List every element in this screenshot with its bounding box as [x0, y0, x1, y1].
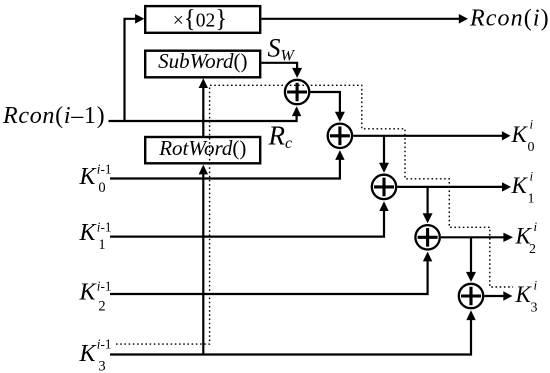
dotted bypass path from K3(i-1) through RotWord/SubWord to K3i	[116, 85, 513, 344]
XOR gate X5 plus	[461, 287, 481, 306]
wire XOR X4 output to K2i	[441, 236, 504, 238]
svg-text:K: K	[79, 280, 98, 306]
svg-text:0: 0	[528, 140, 535, 155]
XOR gate X3 plus	[374, 178, 394, 197]
XOR gate X1 circle	[285, 80, 309, 104]
svg-text:3: 3	[98, 359, 105, 373]
wire XOR X3 output to K1i	[397, 186, 502, 188]
wire Rcon(i-1) horizontal into XOR X1	[109, 108, 297, 121]
arrowhead up into X4 from K2(i-1)	[423, 252, 432, 262]
XOR gate X3 circle	[372, 175, 396, 199]
box RotWord U3	[145, 137, 260, 163]
svg-text:i-1: i-1	[97, 161, 112, 176]
svg-text:i: i	[530, 117, 534, 132]
arrowhead K2i right	[503, 233, 513, 242]
arrowhead up into X1 from Rcon line	[292, 106, 301, 116]
arrowhead K1i right	[502, 182, 511, 191]
XOR gate X4 plus	[418, 228, 438, 247]
arrowhead down into X3	[379, 163, 389, 173]
wire branch up to x{02} box	[125, 19, 137, 121]
XOR gate X2 circle	[328, 124, 352, 148]
svg-text:i: i	[530, 168, 534, 183]
wire K1(i-1) input into XOR X3 bottom	[110, 209, 384, 237]
wire branch K1i down into XOR X4 top	[427, 187, 429, 217]
arrowhead up into X2 from K0(i-1)	[335, 150, 344, 160]
XOR gate X2 plus	[330, 127, 350, 146]
svg-text:K: K	[511, 173, 529, 198]
svg-text:×{02}: ×{02}	[173, 6, 228, 33]
svg-text:2: 2	[98, 298, 105, 314]
svg-text:Rcon(i–1): Rcon(i–1)	[2, 103, 105, 129]
XOR gate X1 plus	[287, 83, 307, 102]
wire K0(i-1) input into XOR X2 bottom	[110, 157, 340, 179]
arrowhead up into RotWord	[199, 165, 208, 175]
svg-text:i-1: i-1	[97, 337, 112, 352]
XOR gate X4 circle	[415, 225, 439, 249]
svg-text:i: i	[534, 219, 538, 234]
svg-text:K: K	[79, 341, 98, 367]
svg-text:i-1: i-1	[97, 220, 112, 235]
svg-text:2: 2	[529, 242, 536, 257]
arrowhead up into SubWord	[199, 78, 208, 88]
arrowhead up into X3 from K1(i-1)	[379, 201, 388, 211]
wire XOR X1 output into XOR X2 top	[310, 92, 340, 115]
arrowhead into x{02}	[135, 14, 144, 24]
svg-text:K: K	[79, 164, 98, 190]
box SubWord U2	[145, 51, 260, 78]
svg-text:Rcon(i): Rcon(i)	[469, 6, 550, 32]
arrowhead Rcon(i)	[459, 14, 468, 24]
svg-text:i-1: i-1	[97, 279, 112, 294]
arrowhead down into X5	[466, 272, 476, 282]
wire SubWord output S_W into XOR X1 top	[262, 63, 298, 71]
svg-text:i: i	[534, 278, 538, 293]
wire XOR X5 output to K3i	[484, 295, 504, 297]
arrowhead down into X4	[423, 213, 433, 223]
svg-text:3: 3	[531, 301, 538, 316]
wire RotWord output up into SubWord	[202, 85, 204, 137]
arrowhead K0i right	[502, 131, 511, 140]
arrowhead X1->X2 down	[335, 112, 345, 122]
arrowhead K3i right	[503, 291, 512, 300]
wire K3(i-1) up into RotWord	[202, 172, 204, 355]
wire XOR X2 output to K0i	[353, 135, 502, 137]
svg-text:0: 0	[98, 180, 105, 196]
wire x{02} output to Rcon(i)	[262, 18, 460, 20]
wire branch K2i down into XOR X5 top	[470, 237, 472, 275]
wire K2(i-1) input into XOR X4 bottom	[110, 259, 428, 294]
svg-text:1: 1	[98, 237, 105, 253]
svg-text:K: K	[79, 220, 98, 246]
wire K3(i-1) input into XOR X5 bottom	[110, 318, 471, 355]
svg-text:1: 1	[528, 192, 535, 207]
arrowhead S_W down into X1	[292, 68, 302, 78]
box x{02} U1	[145, 6, 260, 33]
svg-text:SubWord(): SubWord()	[158, 49, 247, 73]
arrowhead up into X5 from K3(i-1)	[466, 310, 475, 320]
wire branch K0i down into XOR X3 top	[383, 136, 385, 166]
XOR gate X5 circle	[459, 284, 483, 308]
svg-text:K: K	[511, 122, 529, 147]
svg-text:RotWord(): RotWord()	[158, 136, 246, 160]
